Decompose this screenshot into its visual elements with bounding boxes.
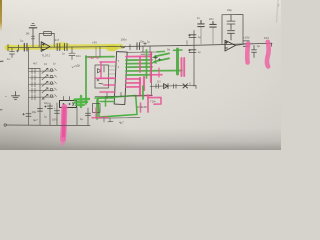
ladder row 3 (resistor + trimmer + contact) [29,81,55,87]
capacitor C21 [45,106,53,109]
svg-text:1µ: 1µ [198,50,202,54]
svg-text:4µ7: 4µ7 [119,121,124,125]
X mark (crossed wires) [183,84,188,88]
capacitor C24 (x88 under green blob) [86,113,91,115]
wire: ladder right rail [39,69,41,126]
paper left edge strip [0,0,2,32]
wire: yellow highlight blob over series caps [54,42,70,50]
capacitor C3 (series after op-amp) [57,44,60,51]
wire: vertical net x194 [193,31,195,87]
capacitor C9 (stub at x143) [141,46,145,54]
capacitor C12 (on vertical, upper) [189,35,196,38]
wire: IC bottom stubs [107,93,121,99]
wire: green vertical x177.5 [176,49,179,74]
wire: yellow highlight end blob [106,45,118,52]
wire: main horizontal bus (pencil) [8,43,272,47]
resistor R1 (on supply branch) [31,36,34,39]
capacitor C2 (series, on yellow trace) [19,43,28,51]
wire: pencil horizontal y86 [150,85,196,88]
wire: green vertical x143 [142,86,144,99]
wire: pink vertical in block [100,62,102,78]
resistor ladder network rails [29,69,41,126]
wire: end tick of main line [271,43,273,46]
wire: pink mark at small block [92,116,108,118]
capacitor C16 (electrolytic inside frame) [227,15,235,30]
wire: U2 output to frame [236,44,244,45]
wire: pin line green y71 [126,70,182,73]
svg-text:4µ7: 4µ7 [33,118,38,122]
svg-text:1n: 1n [62,52,66,56]
wire: branch down to filter block [99,47,101,58]
svg-text:1M: 1M [26,32,31,36]
ladder right contact ticks [55,69,57,71]
wire: vertical x88 [87,108,89,125]
svg-text:TDA: TDA [150,100,156,104]
svg-text:+U~5: +U~5 [88,55,99,60]
wire: pencil top line over green box [95,96,152,97]
svg-text:1µ: 1µ [80,117,84,121]
wire: stubs above relay [64,97,70,101]
wire: pin line pink y56.5 [126,55,151,57]
node: left input terminal [7,45,9,51]
svg-text:16V: 16V [52,118,57,122]
wire: pin line green y60 [126,59,152,61]
plus mark at x145 [144,42,147,45]
wire: ladder left rail [28,69,30,126]
ground symbol (left) [12,92,20,100]
pink box outline (right of green box) [148,97,161,104]
capacitor C23 (on rail x40) [38,109,43,112]
capacitor C1 (input shunt) [10,48,19,58]
wire: green arrow 1 [155,53,169,56]
wire: pink vertical x140.5 low [140,103,142,112]
wire: green rail x86 [85,56,87,104]
wire: yellow highlighted main signal trace [7,46,121,47]
wire: green arrow 2 [155,58,169,61]
wire: faint branch x88 [95,47,97,57]
capacitor C18 (electrolytic, x246) [243,41,249,46]
svg-text:16V: 16V [264,36,269,40]
capacitor C19 (inside P1) [252,46,257,58]
capacitor C7 (series bars x137/139.5) [137,43,140,50]
op-amp U1 feedback wire [39,33,54,47]
svg-text:100n: 100n [121,38,128,42]
ladder row 5 (resistor + trimmer + contact) [29,94,55,100]
wire: yellow highlight left end blob [6,44,13,50]
wire: pink horizontal y95.5 [134,94,152,96]
wire: vertical x57 [56,103,58,125]
marker stroke pink P3 (big vertical) [63,107,64,140]
wire: faint pencil rows box-to-IC [109,66,116,74]
wire: pencil line below green box [98,117,140,120]
supply arrow +U (antenna-like symbol) [29,24,36,47]
wire: pin line green y63.5 [126,62,152,64]
svg-text:1µ: 1µ [257,44,261,48]
marker stroke pink P2 [267,42,269,67]
wire: pink vertical x150.8 [150,53,152,83]
capacitor C10 (stub at x150) [148,46,152,54]
svg-text:22n: 22n [209,17,214,21]
marker scribble green (right of relay) [75,96,90,107]
wire: green pin lines left of IC [95,97,115,99]
wire: vertical x78 under relay [76,108,78,126]
relay K1 (box with dots) [60,101,77,108]
wire: green vertical left of small block [96,100,98,119]
ladder row 1 (resistor + trimmer + contact) [29,68,55,74]
wire: green rail x105.5 low [105,97,107,106]
wire: branch from main line to ladder [28,48,30,69]
small block left of green box [93,104,101,113]
svg-text:+16V: +16V [243,36,250,40]
svg-text:X: X [189,82,191,86]
svg-text:10n: 10n [140,40,145,44]
svg-text:1µ: 1µ [42,97,46,101]
svg-text:9s: 9s [167,48,171,52]
svg-text:10n: 10n [76,54,81,58]
wire: pin line green y67 [126,66,152,68]
IC U3 (main chip) [114,52,127,105]
wire: pin line pink y83 [126,82,140,84]
svg-text:4n7: 4n7 [55,38,60,42]
capacitor C11 stub (above line at x187) [186,41,188,46]
wire: green T-bar top [174,49,183,51]
tick at x130 [129,44,131,50]
wire: pencil vertical x151.5 [151,52,153,95]
svg-text:1n: 1n [7,57,11,61]
svg-text:10µ: 10µ [32,110,37,114]
svg-text:1N: 1N [157,80,161,84]
cross mark + at x156 [154,56,161,61]
svg-text:1µ: 1µ [147,40,151,44]
wire: pink vertical x159 [158,68,160,77]
svg-text:1µ: 1µ [198,35,202,39]
ladder row 2 (resistor + trimmer + contact) [29,75,55,81]
svg-text:1µ: 1µ [20,39,24,43]
wire: ladder top [29,68,41,70]
wire: bottom bus [6,124,90,127]
green box (highlighted module) [98,95,137,117]
capacitor C17 (below C16) [228,31,235,40]
wire: pin line green y75 [126,74,150,76]
resistor ticks on y86 line [156,84,176,88]
wire: pink vertical x140 [139,57,141,73]
marker stroke pink P1 [247,44,248,63]
op-amp U2 (oscillator) [225,40,236,51]
wire: pink vertical pair x140/x144 [139,78,141,95]
node: bus left terminal [4,124,6,126]
wire: green dash row y52 end [157,50,165,52]
crease right edge [277,0,279,22]
capacitor C13 (on vertical, lower) [189,50,196,53]
wire: green rail top y57 [86,56,114,58]
capacitor C5 (shunt to ground at node) [69,47,75,60]
diode D1 (inside block) [97,66,104,84]
capacitor C15 (osc section, x213) [210,22,216,44]
svg-text:4k7: 4k7 [33,62,38,66]
svg-text:TL071: TL071 [42,54,51,58]
wire: pin line pink y79 [126,78,140,80]
diode D2 (on y86 line) [164,84,169,89]
svg-text:1n: 1n [197,16,201,20]
capacitor C14 (osc section, x201) [198,21,204,44]
paper background [0,0,281,150]
svg-text:1N4148: 1N4148 [137,105,147,109]
ladder row 4 (resistor + trimmer + contact) [29,88,55,94]
wire: pin line pencil y52 [126,51,160,53]
wire: green vertical x146.5 [146,50,148,78]
wire: pin line pink y75 right part [150,74,162,76]
svg-text:+9V: +9V [92,41,97,45]
wire: vertical x50 [49,103,51,125]
svg-text:1µ: 1µ [44,115,47,119]
svg-text:10µ: 10µ [44,101,49,105]
svg-text:22µ: 22µ [227,8,232,12]
op-amp U1 [41,42,50,52]
filter block box [95,65,109,88]
wire: pink pin lines left of IC [100,61,116,63]
capacitor C4 (series) [64,44,67,51]
wire: pink vertical x148 [147,95,149,112]
capacitor C22 [55,111,60,114]
pencil marks below green box [104,118,113,122]
capacitor C20 (on left rail) [23,113,31,116]
small dark dash left edge [0,60,3,62]
wire: pink double vertical x180.5/183.5 [181,58,183,76]
wire: oscillator feedback frame [222,15,243,44]
wire: pin line pink y87 [126,86,139,88]
wire: pink horizontal y78 dup [95,77,114,79]
wire: cursive loop in line x121-126 [121,46,126,48]
resistor R2 (feedback, rectangle) [44,32,52,36]
